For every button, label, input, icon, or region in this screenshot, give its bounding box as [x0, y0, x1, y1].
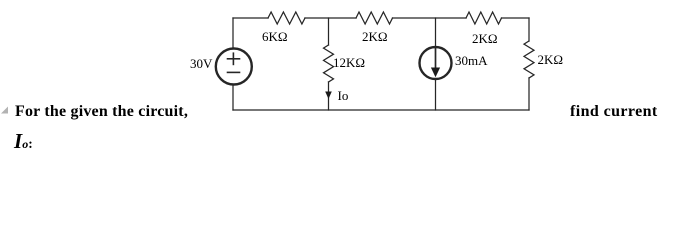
wire left branch lower	[232, 84, 234, 110]
voltage source V1 30V	[216, 49, 252, 85]
wire top middle-left segment	[305, 17, 356, 19]
caption left: For the given the circuit,	[15, 103, 188, 121]
wire right branch lower	[528, 78, 530, 110]
resistor R3 2KΩ	[466, 12, 502, 24]
label 30mA	[455, 53, 488, 69]
wire right branch upper	[528, 18, 530, 41]
label 2KΩ (R5)	[538, 52, 564, 68]
wire top middle-right segment	[393, 17, 467, 19]
wire current-source branch lower	[435, 79, 437, 110]
label 6KΩ	[262, 29, 288, 45]
caption right: find current	[570, 103, 658, 121]
list marker triangle	[0, 105, 12, 117]
label 2KΩ (R2)	[362, 29, 388, 45]
caption Io:	[14, 129, 33, 154]
wire left branch upper	[232, 18, 234, 49]
resistor R2 2KΩ	[356, 12, 393, 24]
wire current-source branch upper	[435, 18, 437, 47]
wire 12K branch lower with Io arrow	[325, 82, 332, 110]
wire top-right segment	[502, 17, 530, 19]
label 2KΩ (R3)	[472, 31, 498, 47]
wire bottom	[233, 109, 529, 111]
resistor R5 2KΩ	[524, 41, 534, 78]
current source I1 30mA	[420, 47, 452, 79]
resistor R4 12KΩ	[324, 45, 334, 82]
label 30V	[190, 56, 212, 72]
label Io	[338, 88, 349, 104]
label 12KΩ	[333, 55, 365, 71]
wire 12K branch upper	[328, 18, 330, 45]
wire top-left segment	[233, 17, 268, 19]
resistor R1 6KΩ	[268, 12, 305, 24]
